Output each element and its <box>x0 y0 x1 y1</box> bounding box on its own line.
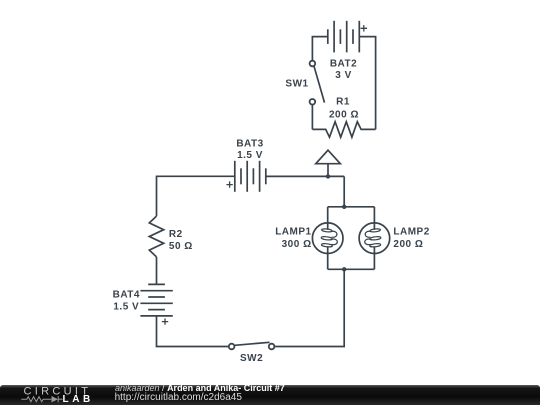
svg-text:LAMP1: LAMP1 <box>275 226 311 237</box>
label BAT4 <box>113 290 140 301</box>
label LAMP1 <box>275 226 311 237</box>
node lamp top junction <box>342 205 346 209</box>
BAT4 plus sign <box>162 318 168 324</box>
BAT2 plus sign <box>361 25 367 31</box>
resistor R2 <box>149 216 163 257</box>
svg-text:SW1: SW1 <box>285 78 308 89</box>
resistor R1 <box>312 122 375 138</box>
wire feed down to lamp top junction <box>343 176 345 206</box>
svg-text:R2: R2 <box>169 229 183 240</box>
label R2 <box>169 229 183 240</box>
wire BAT3 right to lamp feed corner <box>266 175 344 177</box>
node antenna junction <box>326 174 330 178</box>
svg-text:R1: R1 <box>336 97 350 108</box>
label SW1 <box>285 78 308 89</box>
wire BAT2 left terminal to SW1 top <box>312 37 327 61</box>
label R1 value 200 ohm <box>329 109 359 120</box>
wire SW1 bottom to R1 left lead <box>311 105 313 129</box>
battery BAT3 <box>235 161 266 192</box>
label SW2 <box>240 353 263 364</box>
svg-text:50 Ω: 50 Ω <box>169 241 193 252</box>
svg-text:300 Ω: 300 Ω <box>282 239 312 250</box>
wire SW2 right up to lamp bottom junction <box>275 269 345 346</box>
switch SW2 <box>229 342 275 349</box>
label BAT4 value 1.5 V <box>113 301 139 312</box>
footer title text <box>115 383 285 393</box>
label R2 value 50 ohm <box>169 241 193 252</box>
footer bar <box>0 385 540 405</box>
svg-text:1.5 V: 1.5 V <box>113 301 139 312</box>
label BAT3 value 1.5 V <box>237 150 263 161</box>
wire BAT2 right terminal down right side to R1 <box>359 37 375 130</box>
label LAMP1 value 300 ohm <box>282 239 312 250</box>
BAT3 plus sign <box>226 181 232 187</box>
svg-text:BAT4: BAT4 <box>113 290 140 301</box>
wire BAT3 left to left rail down to R2 <box>157 176 235 216</box>
svg-text:BAT2: BAT2 <box>330 58 357 69</box>
svg-text:LAMP2: LAMP2 <box>393 226 429 237</box>
wire lamp top bar <box>328 206 375 208</box>
battery BAT4 <box>140 284 172 316</box>
node lamp bottom junction <box>342 267 346 271</box>
battery BAT2 <box>328 21 360 53</box>
CircuitLab logo <box>0 384 110 405</box>
antenna symbol <box>316 150 341 176</box>
label BAT3 <box>236 138 263 149</box>
wire R2 bottom to BAT4 <box>156 257 158 285</box>
svg-text:1.5 V: 1.5 V <box>237 150 263 161</box>
footer url text <box>115 393 242 403</box>
svg-text:BAT3: BAT3 <box>236 138 263 149</box>
svg-text:SW2: SW2 <box>240 353 263 364</box>
wire BAT4 bottom to SW2 <box>157 316 229 347</box>
lamp LAMP2 <box>359 207 390 269</box>
svg-text:200 Ω: 200 Ω <box>329 109 359 120</box>
svg-text:3 V: 3 V <box>335 70 352 81</box>
label BAT2 value 3 V <box>335 70 352 81</box>
label LAMP2 <box>393 226 429 237</box>
wire lamp bottom bar <box>328 268 375 270</box>
svg-text:200 Ω: 200 Ω <box>393 239 423 250</box>
label LAMP2 value 200 ohm <box>393 239 423 250</box>
lamp LAMP1 <box>312 207 343 269</box>
svg-text:LAB: LAB <box>63 394 94 405</box>
label BAT2 <box>330 58 357 69</box>
switch SW1 <box>310 61 325 105</box>
label R1 <box>336 97 350 108</box>
